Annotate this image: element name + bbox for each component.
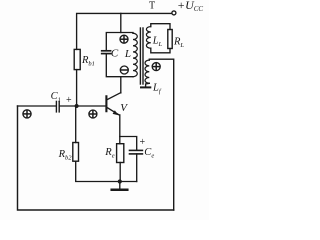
capacitor C1 [55,101,57,112]
svg-text:T: T [149,1,155,12]
resistor Rb2 [73,143,79,162]
wire: Rb1 to base node [76,70,78,106]
ground symbol [119,182,121,189]
ground for Lf [146,83,150,86]
wire: feedback loop bottom and left [18,106,174,210]
resistor Rb1 [74,49,80,69]
polarity mark: Lf plus [152,63,160,71]
wire: top supply rail [77,13,172,49]
resistor RL [168,30,172,49]
wire: emitter branch to Ce [120,137,137,151]
polarity mark: tank top plus [120,35,128,43]
wire: drop from rail to tank top [120,13,122,32]
terminal +Ucc [172,11,176,15]
svg-text:L: L [124,48,131,60]
polarity mark: tank bottom minus [120,66,128,74]
secondary winding Ls [146,27,150,49]
wire: Lf top to right edge and down [149,59,173,210]
svg-text:C: C [111,48,119,60]
wire: Rb2 to bottom rail [76,161,137,181]
resistor Re [117,144,124,163]
capacitor C [102,50,111,52]
transistor V [106,93,120,116]
wire: emitter down to Re [119,115,121,144]
wire: C1 to base [59,105,105,107]
inductor L (primary winding) [133,33,137,76]
LC tank loop wires [106,33,133,77]
polarity mark: loop top-left plus [23,110,31,118]
node: base junction [75,104,79,108]
wire: Ce to rail [136,154,138,182]
wire: Re to rail [119,163,121,182]
wire: Ls to RL loop [151,24,170,30]
capacitor Ce [130,149,143,151]
wire: input loop top left [18,105,56,107]
feedback winding Lf [145,60,149,83]
polarity mark: base plus [89,110,97,118]
wire: collector up to tank [120,77,122,93]
wire: base node to Rb2 [75,106,77,143]
svg-text:+: + [66,95,72,106]
node: rail junction [118,179,122,183]
transformer core [140,28,143,84]
